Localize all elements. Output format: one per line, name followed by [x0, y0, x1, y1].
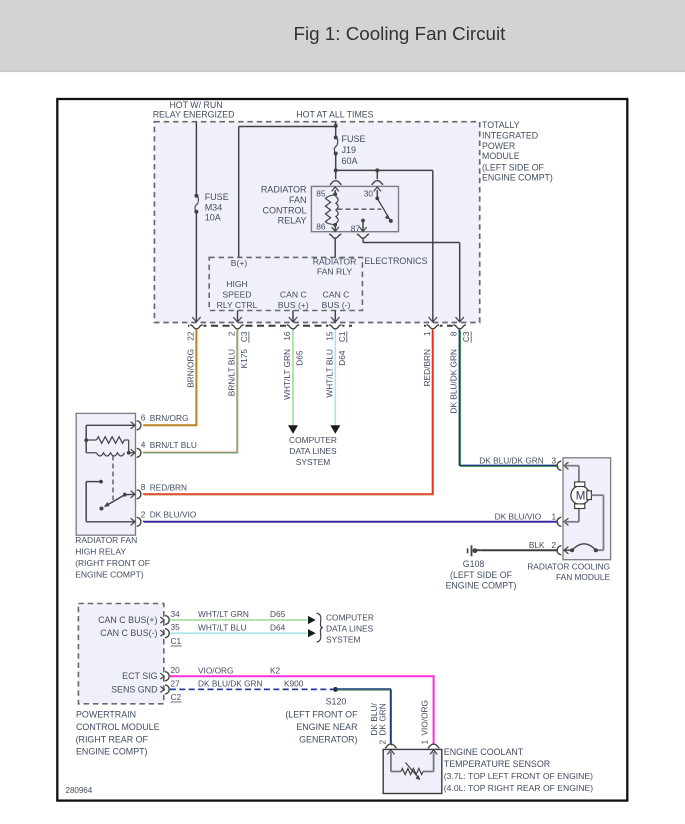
- svg-text:DK GRN: DK GRN: [378, 703, 388, 735]
- svg-text:DK BLU/DK GRN: DK BLU/DK GRN: [449, 349, 459, 414]
- svg-text:30: 30: [364, 188, 374, 198]
- svg-text:D64: D64: [270, 622, 286, 632]
- svg-text:RED/BRN: RED/BRN: [422, 349, 432, 386]
- svg-text:27: 27: [171, 678, 181, 688]
- svg-text:ENGINE COOLANT: ENGINE COOLANT: [444, 747, 524, 757]
- svg-text:ENGINE COMPT): ENGINE COMPT): [75, 570, 144, 580]
- svg-text:(LEFT SIDE OF: (LEFT SIDE OF: [450, 570, 513, 580]
- svg-text:M34: M34: [205, 202, 223, 212]
- svg-text:G108: G108: [463, 559, 485, 569]
- svg-text:DATA LINES: DATA LINES: [326, 623, 374, 633]
- svg-text:ENGINE NEAR: ENGINE NEAR: [296, 722, 357, 732]
- svg-text:WHT/LT BLU: WHT/LT BLU: [324, 349, 334, 398]
- svg-text:FAN MODULE: FAN MODULE: [556, 572, 610, 582]
- svg-text:2: 2: [227, 331, 237, 336]
- svg-text:K2: K2: [270, 665, 281, 675]
- svg-text:1: 1: [552, 512, 557, 522]
- svg-text:87: 87: [351, 223, 361, 233]
- svg-text:2: 2: [378, 740, 388, 745]
- svg-text:WHT/LT BLU: WHT/LT BLU: [198, 622, 247, 632]
- svg-text:22: 22: [185, 331, 195, 341]
- svg-text:K175: K175: [239, 349, 249, 369]
- svg-text:C2: C2: [171, 692, 182, 702]
- svg-text:(3.7L: TOP LEFT FRONT OF ENGIN: (3.7L: TOP LEFT FRONT OF ENGINE): [444, 771, 593, 781]
- svg-text:BRN/LT BLU: BRN/LT BLU: [227, 349, 237, 396]
- svg-text:DK BLU/VIO: DK BLU/VIO: [150, 510, 197, 520]
- svg-text:3: 3: [552, 456, 557, 466]
- svg-text:C3: C3: [239, 331, 249, 342]
- svg-text:(RIGHT FRONT OF: (RIGHT FRONT OF: [75, 558, 150, 568]
- svg-text:CONTROL: CONTROL: [262, 205, 306, 215]
- svg-text:RLY CTRL: RLY CTRL: [217, 300, 258, 310]
- svg-text:D64: D64: [337, 350, 347, 366]
- svg-text:2: 2: [552, 540, 557, 550]
- svg-text:CAN C: CAN C: [323, 289, 350, 299]
- svg-text:CONTROL MODULE: CONTROL MODULE: [76, 722, 160, 732]
- svg-text:D65: D65: [294, 350, 304, 366]
- svg-text:RED/BRN: RED/BRN: [150, 482, 187, 492]
- svg-text:SPEED: SPEED: [222, 289, 251, 299]
- svg-text:TEMPERATURE SENSOR: TEMPERATURE SENSOR: [444, 759, 550, 769]
- svg-text:ENGINE COMPT): ENGINE COMPT): [482, 173, 553, 183]
- svg-text:FUSE: FUSE: [342, 134, 366, 144]
- svg-text:34: 34: [171, 609, 181, 619]
- svg-text:BUS (-): BUS (-): [322, 300, 351, 310]
- svg-text:M: M: [576, 491, 586, 503]
- svg-text:(RIGHT REAR OF: (RIGHT REAR OF: [76, 734, 149, 744]
- svg-text:(LEFT SIDE OF: (LEFT SIDE OF: [482, 163, 545, 173]
- svg-text:HIGH: HIGH: [226, 279, 247, 289]
- svg-text:J19: J19: [342, 145, 357, 155]
- svg-text:Fig 1: Cooling Fan Circuit: Fig 1: Cooling Fan Circuit: [294, 23, 507, 44]
- svg-text:ELECTRONICS: ELECTRONICS: [364, 256, 427, 266]
- svg-text:FAN: FAN: [289, 195, 307, 205]
- svg-text:HIGH RELAY: HIGH RELAY: [75, 547, 126, 557]
- svg-text:RADIATOR: RADIATOR: [261, 185, 307, 195]
- svg-text:8: 8: [141, 482, 146, 492]
- svg-text:INTEGRATED: INTEGRATED: [482, 131, 538, 141]
- svg-text:GENERATOR): GENERATOR): [299, 735, 357, 745]
- svg-text:D65: D65: [270, 609, 286, 619]
- svg-text:ENGINE COMPT): ENGINE COMPT): [446, 580, 517, 590]
- svg-text:BLK: BLK: [529, 540, 545, 550]
- svg-text:DK BLU/DK GRN: DK BLU/DK GRN: [479, 456, 544, 466]
- svg-text:RADIATOR FAN: RADIATOR FAN: [75, 535, 137, 545]
- svg-text:6: 6: [141, 413, 146, 423]
- svg-text:(LEFT FRONT OF: (LEFT FRONT OF: [285, 709, 358, 719]
- svg-text:35: 35: [171, 622, 181, 632]
- svg-text:CAN C: CAN C: [280, 289, 307, 299]
- svg-text:RADIATOR: RADIATOR: [313, 256, 357, 266]
- svg-text:RELAY ENERGIZED: RELAY ENERGIZED: [153, 110, 235, 120]
- svg-text:WHT/LT GRN: WHT/LT GRN: [198, 609, 249, 619]
- svg-text:POWERTRAIN: POWERTRAIN: [76, 710, 136, 720]
- svg-text:COMPUTER: COMPUTER: [289, 435, 337, 445]
- svg-text:ENGINE COMPT): ENGINE COMPT): [76, 747, 148, 757]
- svg-text:C1: C1: [171, 636, 182, 646]
- svg-text:85: 85: [316, 188, 326, 198]
- svg-text:RADIATOR COOLING: RADIATOR COOLING: [527, 561, 610, 571]
- svg-text:BRN/LT BLU: BRN/LT BLU: [150, 440, 197, 450]
- svg-text:C1: C1: [337, 331, 347, 342]
- svg-text:VIO/ORG: VIO/ORG: [198, 665, 234, 675]
- svg-text:SYSTEM: SYSTEM: [326, 634, 360, 644]
- svg-text:WHT/LT GRN: WHT/LT GRN: [282, 349, 292, 400]
- svg-text:POWER: POWER: [482, 141, 515, 151]
- svg-text:B(+): B(+): [231, 258, 248, 268]
- svg-text:2: 2: [141, 509, 146, 519]
- svg-text:C3: C3: [461, 331, 471, 342]
- svg-text:60A: 60A: [342, 156, 358, 166]
- svg-text:CAN C BUS(+): CAN C BUS(+): [98, 615, 157, 625]
- svg-text:MODULE: MODULE: [482, 151, 520, 161]
- svg-text:20: 20: [171, 665, 181, 675]
- svg-text:SYSTEM: SYSTEM: [296, 457, 330, 467]
- svg-text:8: 8: [449, 331, 459, 336]
- svg-text:4: 4: [141, 440, 146, 450]
- svg-text:BUS (+): BUS (+): [278, 300, 309, 310]
- svg-text:TOTALLY: TOTALLY: [482, 120, 520, 130]
- svg-text:10A: 10A: [205, 213, 221, 223]
- svg-text:FUSE: FUSE: [205, 192, 229, 202]
- svg-text:DK BLU/VIO: DK BLU/VIO: [495, 512, 542, 522]
- svg-text:15: 15: [324, 331, 334, 341]
- svg-text:K900: K900: [284, 679, 304, 689]
- svg-text:FAN RLY: FAN RLY: [317, 267, 352, 277]
- svg-text:1: 1: [422, 331, 432, 336]
- svg-text:(4.0L: TOP RIGHT REAR OF ENGIN: (4.0L: TOP RIGHT REAR OF ENGINE): [444, 783, 593, 793]
- svg-text:COMPUTER: COMPUTER: [326, 612, 374, 622]
- svg-text:ECT SIG: ECT SIG: [122, 671, 157, 681]
- svg-text:16: 16: [282, 331, 292, 341]
- svg-text:S120: S120: [326, 697, 347, 707]
- svg-text:CAN C BUS(-): CAN C BUS(-): [100, 628, 157, 638]
- svg-text:VIO/ORG: VIO/ORG: [420, 700, 430, 736]
- svg-text:86: 86: [316, 222, 326, 232]
- svg-text:HOT AT ALL TIMES: HOT AT ALL TIMES: [296, 110, 373, 120]
- svg-text:RELAY: RELAY: [278, 216, 307, 226]
- svg-text:280964: 280964: [66, 786, 93, 795]
- svg-text:SENS GND: SENS GND: [111, 684, 157, 694]
- svg-text:BRN/ORG: BRN/ORG: [150, 413, 189, 423]
- svg-text:1: 1: [420, 740, 430, 745]
- svg-text:DATA LINES: DATA LINES: [289, 446, 337, 456]
- svg-text:DK BLU/DK GRN: DK BLU/DK GRN: [198, 679, 263, 689]
- svg-text:BRN/ORG: BRN/ORG: [185, 349, 195, 388]
